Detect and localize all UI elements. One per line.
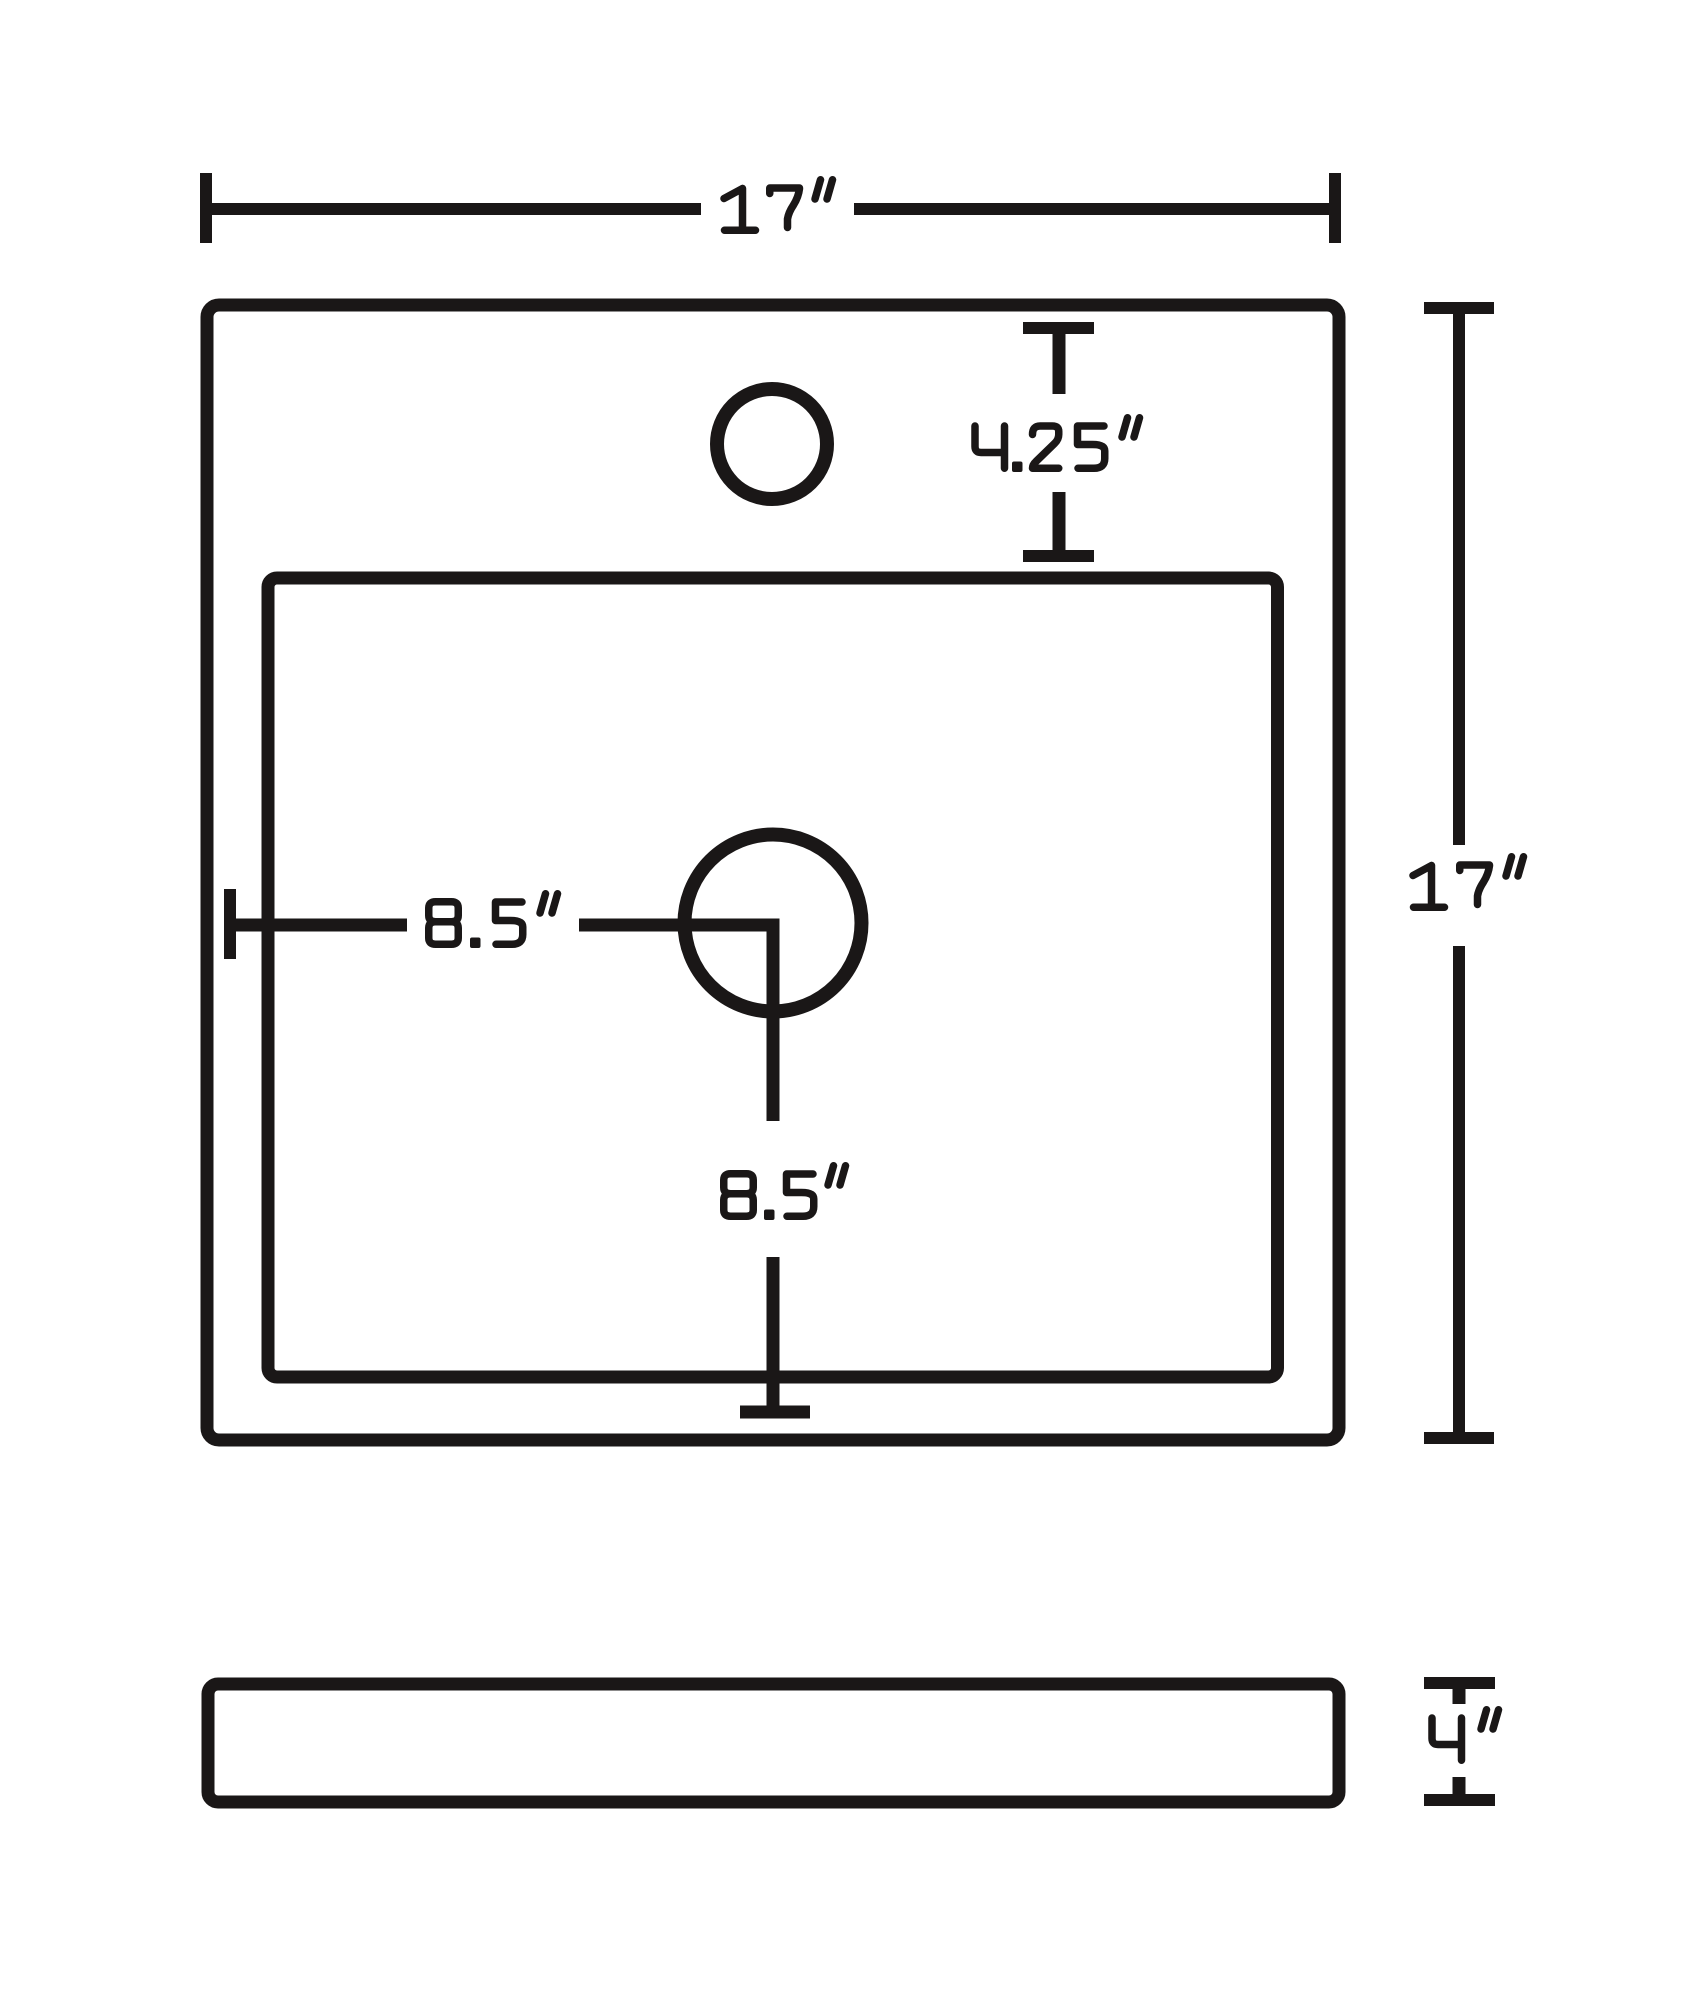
4in thickness dimension: top tick bar (1424, 1677, 1495, 1689)
right height dimension 17in: lower line segment (1453, 946, 1465, 1438)
8.5in vertical dimension: bottom tick bar (740, 1406, 810, 1419)
8.5in horizontal dimension: right line segment to drain center (579, 919, 780, 932)
top width dimension: left tick (200, 173, 212, 243)
4in thickness dimension: lower stub (1453, 1777, 1466, 1800)
4in thickness dimension: bottom tick bar (1424, 1794, 1495, 1806)
label 17 inch (right) (1413, 857, 1524, 908)
8.5in vertical dimension: lower line segment (767, 1257, 780, 1406)
8.5in horizontal dimension: left tick (224, 889, 236, 959)
4in thickness dimension: upper stub (1453, 1683, 1466, 1704)
top width dimension: right tick (1329, 173, 1341, 243)
outer sink rim (top view) (207, 305, 1339, 1440)
8.5in horizontal dimension: left line segment (230, 919, 407, 932)
label 4 inch (side view) (1432, 1710, 1499, 1761)
drain hole circle (685, 835, 862, 1012)
right height dimension 17in: upper line segment (1453, 308, 1465, 845)
side view slab rectangle (208, 1684, 1339, 1802)
right height dimension 17in: bottom tick bar (1424, 1432, 1494, 1444)
inner basin rectangle (268, 578, 1278, 1377)
4.25in dimension: top tick bar (1023, 322, 1094, 334)
4.25in dimension: lower stub (1053, 492, 1066, 556)
top width dimension: right line segment (854, 203, 1335, 215)
label 17 inch (top) (724, 180, 833, 231)
label 4.25 inch (975, 418, 1140, 472)
faucet hole circle (717, 389, 827, 499)
4.25in dimension: upper stub (1053, 328, 1066, 394)
right height dimension 17in: top tick bar (1424, 302, 1494, 314)
label 8.5 inch (vertical) (724, 1166, 846, 1220)
8.5in vertical dimension: upper line segment from drain center (767, 925, 780, 1121)
4.25in dimension: bottom tick bar (1023, 550, 1094, 562)
top width dimension: left line segment (206, 203, 701, 215)
label 8.5 inch (horizontal) (429, 894, 558, 948)
